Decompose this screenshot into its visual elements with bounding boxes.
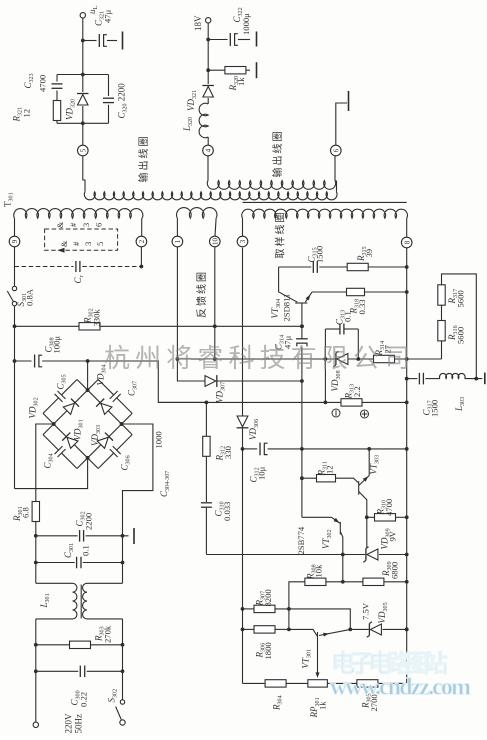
svg-text:100μ: 100μ bbox=[52, 336, 62, 354]
svg-text:#: # bbox=[72, 242, 81, 246]
wire node3 column to dividers bbox=[242, 449, 244, 684]
svg-text:&: & bbox=[56, 221, 65, 228]
wire positive rail bbox=[158, 401, 406, 403]
svg-text:330: 330 bbox=[223, 446, 233, 459]
svg-text:0.1: 0.1 bbox=[81, 545, 91, 556]
svg-text:0.33: 0.33 bbox=[357, 299, 367, 314]
svg-text:4700: 4700 bbox=[38, 75, 48, 92]
wire base rail bbox=[15, 325, 303, 327]
node 2 bbox=[136, 236, 147, 247]
wire bridge right AC bbox=[122, 424, 153, 536]
svg-text:T301: T301 bbox=[3, 192, 15, 207]
svg-text:#: # bbox=[69, 223, 78, 227]
svg-text:C320 2200: C320 2200 bbox=[117, 83, 129, 119]
diode VD307 bbox=[177, 359, 204, 381]
wire bridge bottom DC- bbox=[15, 458, 88, 489]
resistor R304 bbox=[243, 682, 265, 684]
diode VD306 bbox=[237, 416, 248, 427]
svg-text:10μ: 10μ bbox=[257, 466, 267, 480]
resonant current box bbox=[45, 229, 118, 250]
svg-text:10k: 10k bbox=[314, 564, 324, 578]
capacitor C320 bbox=[108, 75, 110, 97]
resistor R318 bbox=[312, 291, 347, 293]
wire emitter column bbox=[301, 381, 303, 517]
svg-text:12: 12 bbox=[325, 465, 335, 474]
capacitor C312 bbox=[241, 447, 245, 451]
bridge rectifier VD301-VD304 with C304-C307 bbox=[25, 361, 151, 487]
svg-text:2.2: 2.2 bbox=[352, 386, 362, 397]
zener VD308 bbox=[337, 354, 348, 365]
resistor R307 bbox=[241, 607, 245, 611]
svg-text:&: & bbox=[60, 240, 69, 247]
svg-text:6: 6 bbox=[95, 223, 104, 227]
resistor R311 bbox=[302, 477, 317, 479]
winding output row A bbox=[207, 181, 335, 190]
node 10 bbox=[210, 236, 221, 247]
ground bbox=[256, 62, 258, 78]
wire dc+ to bridge bbox=[86, 359, 90, 363]
wire bbox=[207, 156, 209, 181]
svg-text:2SB774: 2SB774 bbox=[296, 526, 306, 554]
switch S301 bbox=[12, 286, 16, 290]
svg-text:2200: 2200 bbox=[84, 513, 94, 530]
svg-text:uL: uL bbox=[87, 6, 99, 15]
wire bbox=[207, 23, 209, 40]
wire node9 down bbox=[14, 247, 16, 286]
resistor R308 bbox=[289, 582, 305, 630]
diode VD321 bbox=[207, 70, 209, 84]
svg-text:9: 9 bbox=[11, 239, 19, 243]
wire bbox=[207, 40, 209, 71]
svg-text:5600: 5600 bbox=[456, 290, 466, 307]
wire to node 5 bbox=[82, 123, 84, 145]
svg-text:1: 1 bbox=[174, 239, 182, 243]
svg-text:VT304: VT304 bbox=[270, 299, 282, 319]
switch S302 bbox=[120, 700, 124, 704]
svg-text:取样线圈: 取样线圈 bbox=[274, 211, 287, 259]
inductor L301 bbox=[36, 583, 77, 619]
svg-text:4700: 4700 bbox=[384, 499, 394, 516]
resistor R309 bbox=[363, 578, 384, 585]
potentiometer RP301 bbox=[308, 680, 328, 687]
capacitor C300 bbox=[34, 669, 38, 673]
svg-text:9V: 9V bbox=[388, 530, 398, 541]
zener VD305 bbox=[350, 628, 369, 630]
capacitor Cr dashed link bbox=[15, 266, 74, 268]
zener VD309 bbox=[366, 517, 368, 548]
resistor R305 bbox=[327, 682, 356, 684]
svg-text:Cr: Cr bbox=[73, 275, 85, 283]
wire bbox=[35, 536, 37, 584]
wire bbox=[14, 326, 16, 361]
svg-text:0.1: 0.1 bbox=[343, 311, 353, 322]
svg-text:6: 6 bbox=[332, 148, 340, 152]
svg-text:8: 8 bbox=[403, 240, 411, 244]
svg-text:6800: 6800 bbox=[390, 562, 400, 579]
svg-text:3: 3 bbox=[84, 242, 93, 246]
transistor VT301 bbox=[289, 629, 318, 636]
svg-text:5: 5 bbox=[79, 148, 87, 152]
svg-text:www.cndzz.com: www.cndzz.com bbox=[330, 675, 471, 701]
svg-text:L303: L303 bbox=[454, 397, 466, 412]
wire bbox=[35, 645, 37, 722]
resistor R306 bbox=[241, 628, 245, 632]
node 3 bbox=[237, 236, 248, 247]
resistor R317 bbox=[441, 305, 443, 320]
node 9 bbox=[9, 236, 20, 247]
svg-text:5600: 5600 bbox=[456, 327, 466, 344]
resistor R312 bbox=[205, 402, 207, 436]
svg-text:C306: C306 bbox=[120, 455, 132, 470]
terminal uL bbox=[80, 13, 85, 18]
svg-text:1500: 1500 bbox=[430, 400, 440, 417]
svg-text:270k: 270k bbox=[103, 625, 113, 643]
wire bridge top bbox=[87, 361, 89, 390]
svg-text:VD320: VD320 bbox=[65, 99, 77, 120]
resistor R303 bbox=[34, 643, 38, 647]
svg-text:4: 4 bbox=[205, 148, 213, 152]
svg-text:R304: R304 bbox=[272, 695, 284, 711]
ground bbox=[122, 32, 124, 50]
svg-text:220V: 220V bbox=[64, 713, 74, 734]
node 6 wire and ground bbox=[334, 156, 336, 181]
svg-text:5: 5 bbox=[96, 242, 105, 246]
wire bbox=[35, 619, 37, 645]
svg-text:L320: L320 bbox=[182, 117, 194, 132]
wire bbox=[83, 156, 85, 192]
inductor L320 bbox=[199, 103, 208, 137]
svg-text:2SD811: 2SD811 bbox=[282, 294, 292, 322]
capacitor C322 bbox=[208, 39, 227, 41]
svg-text:VD301: VD301 bbox=[73, 419, 85, 440]
svg-text:C304: C304 bbox=[43, 453, 55, 468]
wire node2 bbox=[140, 247, 142, 267]
svg-text:VD321: VD321 bbox=[186, 90, 198, 111]
winding input coil bbox=[14, 209, 143, 219]
svg-text:0.22: 0.22 bbox=[79, 692, 89, 707]
polarity minus bbox=[332, 409, 340, 417]
svg-text:VD306: VD306 bbox=[248, 419, 260, 440]
svg-text:VT303: VT303 bbox=[369, 455, 381, 475]
terminal 18V bbox=[206, 18, 211, 23]
resistor R310 bbox=[365, 515, 369, 519]
wire collector down bbox=[342, 555, 344, 582]
svg-text:S302: S302 bbox=[107, 689, 119, 703]
transistor VT303 bbox=[358, 481, 360, 495]
svg-text:L301: L301 bbox=[39, 593, 51, 608]
terminal mains left bbox=[33, 722, 38, 727]
node snubber rails bbox=[57, 74, 109, 76]
svg-text:39: 39 bbox=[364, 249, 374, 258]
resistor R313 bbox=[341, 399, 362, 406]
svg-text:C301: C301 bbox=[63, 543, 75, 558]
wire bbox=[82, 18, 84, 41]
svg-text:3: 3 bbox=[239, 239, 247, 243]
svg-text:10: 10 bbox=[211, 238, 219, 246]
svg-text:VD302: VD302 bbox=[28, 397, 40, 418]
svg-text:12: 12 bbox=[22, 109, 32, 118]
svg-text:18V: 18V bbox=[193, 15, 203, 31]
svg-text:1500: 1500 bbox=[315, 246, 325, 263]
svg-text:VT301: VT301 bbox=[301, 649, 313, 669]
terminal bar bbox=[484, 373, 486, 385]
svg-text:8200: 8200 bbox=[263, 589, 273, 606]
capacitor C321 bbox=[83, 40, 97, 42]
resistor R316 bbox=[407, 358, 442, 360]
svg-text:1k: 1k bbox=[318, 701, 328, 710]
winding feedback coil bbox=[177, 208, 217, 219]
winding sampling coil bbox=[242, 209, 408, 218]
svg-text:C304-307: C304-307 bbox=[159, 471, 171, 497]
node 8 bbox=[401, 237, 412, 248]
svg-text:6.8: 6.8 bbox=[21, 507, 31, 518]
svg-text:VD305: VD305 bbox=[377, 602, 389, 623]
svg-text:输出线圈: 输出线圈 bbox=[271, 130, 284, 178]
wire node 3 down bbox=[242, 248, 244, 416]
ground bbox=[133, 528, 135, 544]
capacitor C301 bbox=[34, 561, 38, 565]
polarity plus bbox=[361, 410, 369, 418]
svg-text:C307: C307 bbox=[127, 381, 139, 396]
wire node1 down bbox=[176, 247, 178, 359]
capacitor C314 bbox=[300, 324, 304, 328]
svg-text:1800: 1800 bbox=[263, 642, 273, 659]
capacitor C310 bbox=[201, 502, 212, 504]
capacitor C313 loop bbox=[324, 329, 326, 359]
svg-text:1k: 1k bbox=[236, 77, 246, 86]
wire bbox=[324, 359, 326, 402]
svg-text:输出线圈: 输出线圈 bbox=[137, 135, 150, 183]
svg-text:反馈线圈: 反馈线圈 bbox=[195, 270, 208, 318]
svg-text:VD308: VD308 bbox=[330, 370, 342, 391]
arrow bbox=[58, 248, 65, 253]
transistor VT302 2SB774 bbox=[302, 516, 332, 518]
svg-text:C305: C305 bbox=[56, 374, 68, 389]
wire C310 bottom rail bbox=[206, 554, 342, 556]
capacitor C315 bbox=[279, 266, 312, 268]
svg-text:VT302: VT302 bbox=[321, 529, 333, 549]
svg-text:330k: 330k bbox=[92, 309, 102, 327]
wire bridge left AC bbox=[36, 424, 54, 502]
svg-text:0.033: 0.033 bbox=[222, 502, 232, 521]
svg-text:C323: C323 bbox=[23, 73, 35, 88]
svg-text:电子电路图站: 电子电路图站 bbox=[331, 650, 448, 678]
resistor R321 bbox=[53, 101, 60, 121]
capacitor C302 bbox=[34, 534, 38, 538]
svg-text:7.5V: 7.5V bbox=[361, 602, 371, 620]
winding output row B bbox=[84, 192, 337, 200]
node 4 bbox=[203, 145, 214, 156]
wire main right rail bbox=[406, 248, 408, 683]
capacitor C317 bbox=[407, 378, 418, 380]
svg-text:3: 3 bbox=[82, 223, 91, 227]
resistor R301 bbox=[32, 502, 39, 522]
svg-text:50Hz: 50Hz bbox=[74, 714, 84, 734]
wire bbox=[82, 41, 84, 75]
svg-text:0.8A: 0.8A bbox=[25, 288, 35, 306]
resistor R315 bbox=[347, 263, 368, 270]
svg-text:1000: 1000 bbox=[154, 431, 164, 448]
transistor VT304 2SD811 bbox=[295, 302, 307, 304]
capacitor C323 bbox=[56, 75, 58, 82]
node 5 bbox=[78, 145, 89, 156]
wire common rail bbox=[177, 358, 406, 360]
capacitor C308 bbox=[15, 360, 32, 362]
inductor L303 bbox=[440, 373, 466, 378]
resistor R302 bbox=[79, 323, 100, 330]
svg-text:2: 2 bbox=[138, 239, 146, 243]
resistor R320 bbox=[206, 68, 210, 72]
svg-text:47μ: 47μ bbox=[103, 9, 113, 23]
resistor R314 bbox=[374, 355, 395, 362]
node 1 bbox=[172, 236, 183, 247]
diode VD320 bbox=[82, 75, 84, 93]
svg-text:1000μ: 1000μ bbox=[241, 13, 251, 35]
ground bbox=[256, 32, 258, 47]
wire node10 down bbox=[214, 247, 216, 359]
